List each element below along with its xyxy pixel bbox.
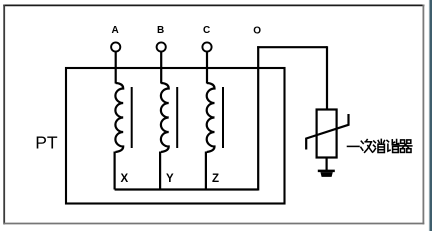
PT transformer box xyxy=(66,68,285,204)
svg-text:B: B xyxy=(157,25,164,36)
winding X coil xyxy=(115,83,123,152)
wire neutral riser xyxy=(257,46,259,190)
winding Y coil xyxy=(161,83,169,152)
wire Y down xyxy=(159,152,161,190)
wire to arrester xyxy=(326,46,328,110)
svg-text:X: X xyxy=(121,173,129,185)
svg-text:Z: Z xyxy=(212,173,219,185)
terminal C circle xyxy=(202,42,211,51)
wire Z down xyxy=(205,152,207,190)
label 一次消谐器 (primary harmonic eliminator), hand drawn glyphs xyxy=(348,139,412,152)
svg-text:PT: PT xyxy=(35,132,58,152)
char 一 xyxy=(348,145,360,147)
wire O horizontal xyxy=(257,46,327,48)
svg-text:C: C xyxy=(203,25,210,36)
right edge screen strip xyxy=(429,0,430,231)
ground symbol xyxy=(318,170,335,173)
char 次 xyxy=(361,140,373,153)
arrester RV1 body xyxy=(317,110,337,158)
neutral bus wire xyxy=(115,188,259,190)
terminal A circle xyxy=(111,42,120,51)
core Y xyxy=(176,87,178,148)
svg-text:A: A xyxy=(112,25,119,36)
core X xyxy=(131,87,133,148)
char 消 xyxy=(374,139,385,152)
wire C stem xyxy=(206,52,208,84)
core Z xyxy=(222,87,224,148)
wire B stem xyxy=(160,52,162,84)
svg-text:O: O xyxy=(253,26,261,37)
terminal B circle xyxy=(157,42,166,51)
border frame xyxy=(3,4,424,6)
wire X down xyxy=(113,152,115,190)
winding Z coil xyxy=(207,83,215,152)
char 谐 xyxy=(387,140,399,153)
svg-text:Y: Y xyxy=(166,173,174,185)
wire A stem xyxy=(115,52,117,84)
arrester diagonal stroke xyxy=(306,114,348,150)
wire arrester to ground xyxy=(326,158,328,171)
char 器 xyxy=(400,140,412,153)
